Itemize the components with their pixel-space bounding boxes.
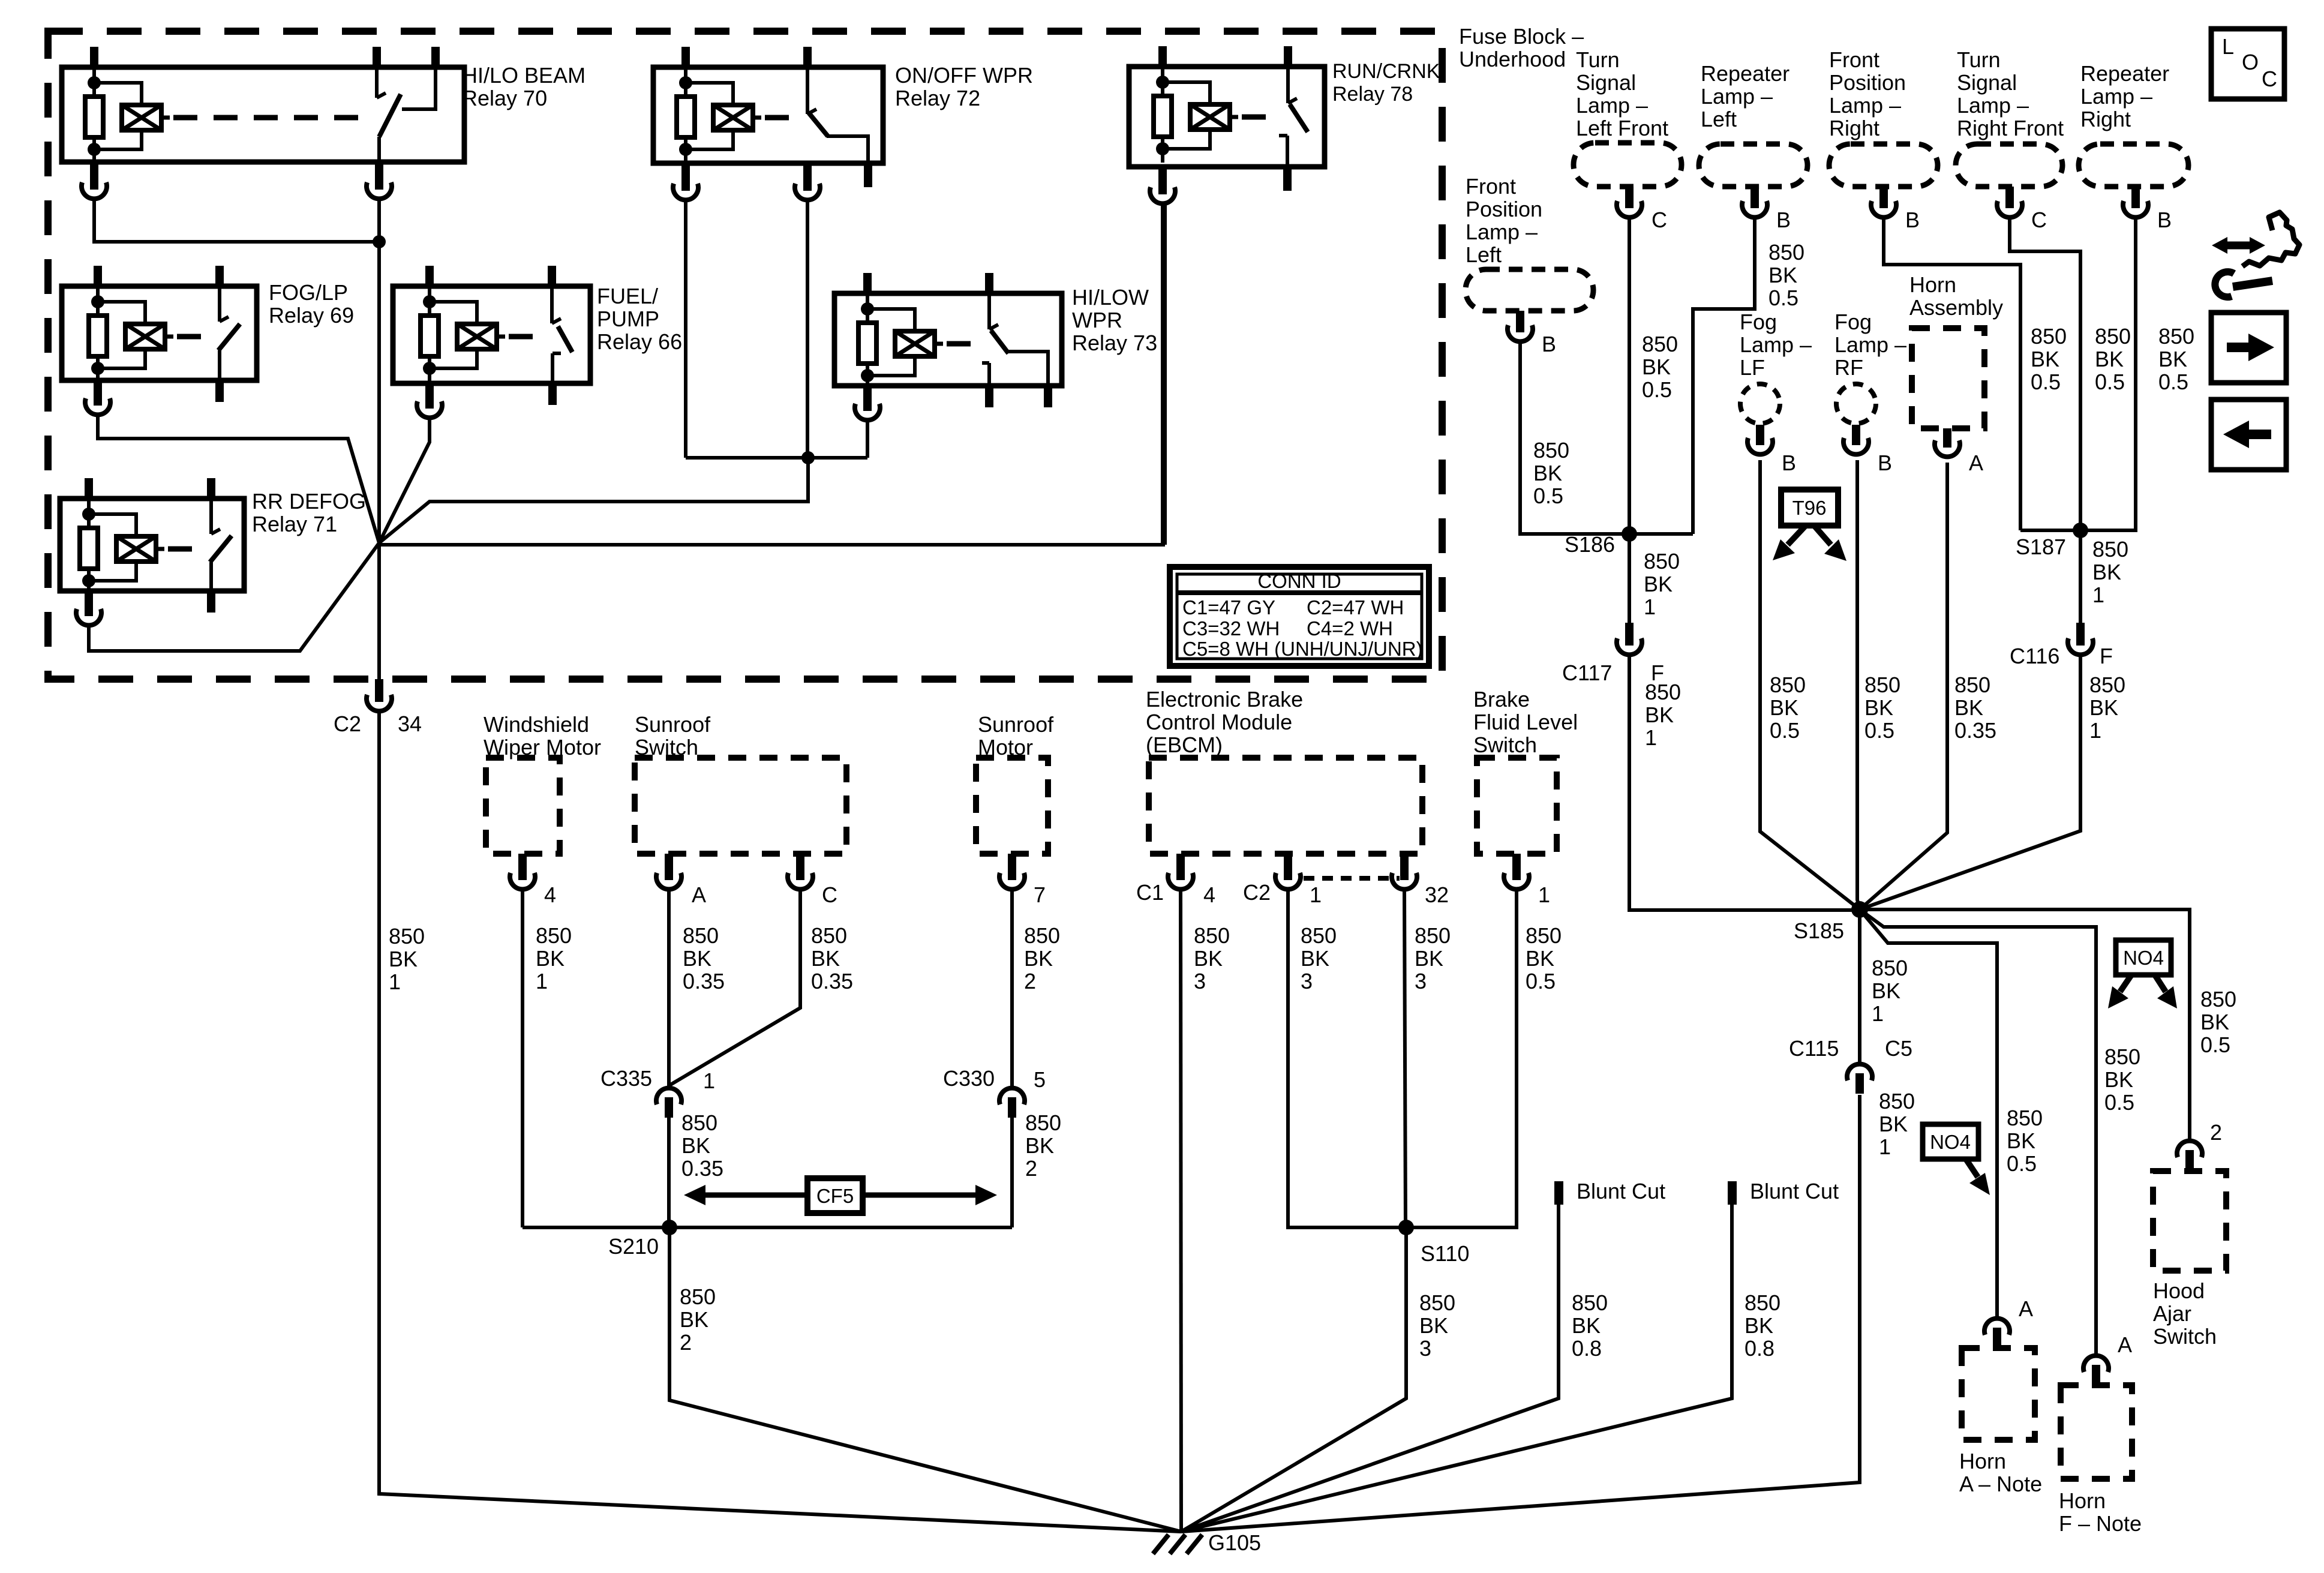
svg-text:Lamp –: Lamp – (1466, 220, 1538, 244)
svg-text:A – Note: A – Note (1959, 1472, 2042, 1496)
svg-text:Sunroof: Sunroof (978, 712, 1054, 737)
svg-text:850: 850 (1872, 956, 1908, 980)
windshield wiper motor (484, 712, 601, 907)
connector C115 C5 (1789, 1036, 1912, 1094)
svg-text:FUEL/: FUEL/ (597, 284, 658, 308)
relay 71 bottom connectors (76, 591, 215, 625)
svg-text:0.35: 0.35 (681, 1156, 723, 1181)
splice S210 (523, 1220, 1012, 1259)
svg-text:B: B (1542, 332, 1556, 356)
svg-text:BK: BK (680, 1307, 708, 1332)
svg-text:Signal: Signal (1576, 70, 1636, 95)
svg-text:Signal: Signal (1957, 70, 2017, 95)
svg-text:F – Note: F – Note (2059, 1511, 2142, 1536)
svg-text:Fog: Fog (1740, 310, 1777, 334)
svg-text:BK: BK (811, 946, 840, 971)
svg-text:HI/LOW: HI/LOW (1072, 285, 1149, 310)
svg-text:A: A (1969, 451, 1983, 475)
svg-text:BK: BK (1526, 946, 1554, 971)
wire relay72 right pin down to dot (806, 201, 809, 458)
svg-text:Switch: Switch (1473, 733, 1537, 757)
svg-text:Horn: Horn (1959, 1449, 2006, 1473)
svg-text:Blunt Cut: Blunt Cut (1577, 1179, 1665, 1203)
wire S185 down to C115 (1858, 909, 1861, 1062)
front position lamp right (1829, 47, 1938, 232)
svg-text:Left: Left (1701, 107, 1737, 131)
wire horn assembly to S185 (1860, 463, 1947, 909)
wire sunroof switch A to C335 (667, 891, 671, 1086)
relay 66 label (597, 284, 682, 354)
svg-text:850: 850 (680, 1284, 716, 1309)
svg-text:850: 850 (683, 923, 719, 948)
label 850 BK 0.35 below C335 (681, 1110, 723, 1181)
svg-text:Horn: Horn (1909, 272, 1956, 297)
svg-text:5: 5 (1034, 1067, 1046, 1092)
wire relay73 pin to dot (866, 421, 869, 458)
label 850 BK 1 above C115 (1872, 956, 1908, 1026)
svg-text:BK: BK (1194, 946, 1223, 971)
svg-text:4: 4 (1203, 882, 1215, 907)
svg-text:C4=2 WH: C4=2 WH (1307, 617, 1393, 640)
svg-text:ON/OFF WPR: ON/OFF WPR (895, 63, 1033, 88)
label 850 BK 0.35 switch C wire (811, 923, 853, 993)
svg-text:Left Front: Left Front (1576, 116, 1668, 140)
junction dot below relay 70 (373, 235, 386, 248)
relay 66 bottom connectors (417, 383, 557, 418)
svg-text:F: F (2100, 644, 2113, 668)
svg-text:850: 850 (1024, 923, 1060, 948)
svg-text:BK: BK (1415, 946, 1443, 971)
NO4 note box upper with arrows (2108, 940, 2177, 1008)
svg-text:850: 850 (1879, 1089, 1915, 1113)
svg-text:Left: Left (1466, 242, 1502, 267)
svg-text:C116: C116 (2010, 644, 2059, 668)
svg-text:Fuse Block –: Fuse Block – (1459, 24, 1584, 49)
relay 73 label (1072, 285, 1157, 355)
svg-text:Switch: Switch (2153, 1324, 2217, 1349)
svg-text:0.8: 0.8 (1572, 1336, 1602, 1361)
svg-text:850: 850 (2095, 324, 2131, 349)
svg-text:1: 1 (536, 969, 548, 993)
svg-text:Relay 70: Relay 70 (462, 86, 547, 110)
svg-text:NO4: NO4 (2123, 947, 2164, 969)
svg-text:Lamp –: Lamp – (1576, 93, 1648, 118)
svg-text:0.5: 0.5 (1770, 718, 1800, 743)
svg-text:0.35: 0.35 (683, 969, 725, 993)
svg-text:C: C (822, 882, 837, 907)
svg-text:Right Front: Right Front (1957, 116, 2064, 140)
svg-text:BK: BK (1642, 355, 1671, 379)
svg-text:3: 3 (1415, 969, 1427, 993)
svg-text:L: L (2222, 34, 2234, 59)
svg-text:0.35: 0.35 (1954, 718, 1996, 743)
svg-text:S185: S185 (1794, 918, 1844, 943)
arrow left legend box (2211, 400, 2286, 470)
wire main vertical x=632 relay70 to C2 connector (377, 200, 381, 679)
svg-text:Turn: Turn (1957, 47, 2001, 72)
svg-text:BK: BK (681, 1133, 710, 1158)
svg-text:0.35: 0.35 (811, 969, 853, 993)
svg-text:Lamp –: Lamp – (1834, 332, 1906, 357)
svg-text:3: 3 (1301, 969, 1313, 993)
svg-text:850: 850 (1301, 923, 1337, 948)
svg-text:2: 2 (1025, 1156, 1037, 1181)
svg-text:C5=8 WH (UNH/UNJ/UNR): C5=8 WH (UNH/UNJ/UNR) (1182, 638, 1423, 660)
relay 72 label (895, 63, 1033, 110)
wire sunroof switch C to C335 (669, 891, 800, 1085)
svg-text:PUMP: PUMP (597, 307, 659, 331)
wire label 850 BK 1 (C2 wire) (389, 924, 425, 994)
svg-text:Assembly: Assembly (1909, 295, 2003, 320)
label 850 BK 0.5 horn A wire (2007, 1106, 2043, 1176)
connector C2 pin 34 (334, 679, 422, 736)
label 850 BK 0.5 FP-left wire (1533, 438, 1569, 508)
horn A-note (1959, 1296, 2042, 1496)
svg-text:T96: T96 (1792, 497, 1827, 519)
label 850 BK 1 below C5 (1879, 1089, 1915, 1159)
svg-text:850: 850 (1644, 549, 1680, 574)
svg-text:S187: S187 (2016, 535, 2066, 559)
label 850 BK 0.35 horn wire (1954, 673, 1996, 743)
wire TS-RF through S187 (2010, 218, 2080, 530)
svg-text:0.5: 0.5 (1768, 286, 1798, 310)
wire relay78 left pin down to junction horizontal (1161, 205, 1164, 545)
relay 69 label (269, 280, 354, 328)
wire relay66 pin to junction (379, 419, 430, 543)
wire S185 to hood ajar switch (1860, 909, 2190, 1139)
horn assembly (1909, 272, 2003, 475)
svg-text:Windshield: Windshield (484, 712, 589, 737)
label 850 BK 3 (pin32 wire) (1415, 923, 1451, 993)
svg-text:850: 850 (1419, 1290, 1455, 1315)
wire S210 to G105 (669, 1227, 1181, 1532)
svg-text:(EBCM): (EBCM) (1146, 733, 1223, 757)
wire EBCM C1-4 to G105 (1181, 891, 1181, 1532)
svg-text:C2: C2 (334, 712, 361, 736)
svg-text:0.5: 0.5 (1864, 718, 1894, 743)
wire junction to RUN/CRNK relay (379, 205, 1165, 545)
svg-text:850: 850 (1744, 1290, 1780, 1315)
svg-text:BK: BK (1864, 695, 1893, 720)
svg-text:LF: LF (1740, 355, 1765, 380)
label 850 BK 0.5 hood ajar wire (2200, 987, 2236, 1057)
fuse block underhood dashed border (48, 31, 1442, 679)
wire C117 to S185 (1629, 656, 1860, 910)
wire EBCM 32 to S110 (1404, 891, 1406, 1227)
wire EBCM C2-1 to S110 (1288, 891, 1406, 1227)
svg-text:850: 850 (1194, 923, 1230, 948)
svg-text:Hood: Hood (2153, 1278, 2205, 1303)
relay 78 RUN/CRNK box (1129, 46, 1325, 167)
svg-text:Electronic Brake: Electronic Brake (1146, 687, 1303, 712)
svg-text:Control Module: Control Module (1146, 710, 1292, 734)
svg-text:BK: BK (1768, 263, 1797, 287)
label 850 BK 1 below C116 (2089, 673, 2125, 743)
svg-text:850: 850 (1526, 923, 1562, 948)
svg-text:Horn: Horn (2059, 1488, 2106, 1513)
svg-text:C117: C117 (1562, 661, 1612, 685)
label 850 BK 0.5 fog LF (1770, 673, 1806, 743)
EBCM electronic brake control module (1136, 687, 1449, 907)
vehicle front icon with arrow and wrench (2212, 212, 2299, 297)
svg-text:B: B (1878, 451, 1892, 475)
fog lamp RF (1834, 310, 1906, 475)
splice S186 (1565, 526, 1693, 557)
svg-text:BK: BK (1879, 1112, 1908, 1136)
svg-text:850: 850 (1025, 1110, 1061, 1135)
blunt cut wire 1 (1181, 1179, 1665, 1532)
relay 72 ON/OFF WPR box (653, 47, 883, 163)
svg-text:BK: BK (1572, 1313, 1601, 1338)
wire S110 to G105 (1181, 1227, 1406, 1532)
svg-text:BK: BK (1024, 946, 1053, 971)
svg-text:Lamp –: Lamp – (1740, 332, 1812, 357)
splice S110 (1398, 1220, 1469, 1266)
svg-text:BK: BK (536, 946, 565, 971)
svg-text:1: 1 (1538, 882, 1550, 907)
svg-text:Repeater: Repeater (2080, 61, 2169, 86)
splice S187 (2016, 523, 2136, 559)
svg-text:NO4: NO4 (1930, 1131, 1971, 1153)
svg-text:C1=47 GY: C1=47 GY (1182, 596, 1275, 619)
wire repeater-left to S186 (1693, 218, 1755, 534)
svg-text:C1: C1 (1136, 880, 1164, 905)
svg-text:Relay 66: Relay 66 (597, 329, 682, 354)
svg-text:0.5: 0.5 (2031, 370, 2061, 394)
svg-text:BK: BK (2031, 347, 2059, 371)
wire relay72 left pin down (684, 201, 687, 458)
label 850 BK 0.5 TS-LF wire (1642, 332, 1678, 402)
wire junction to ON/OFF & HI/LOW relays (379, 458, 867, 543)
relay 71 RR DEFOG box (60, 478, 244, 595)
svg-text:Relay 73: Relay 73 (1072, 331, 1157, 355)
label 850 BK 2 motor wire (1024, 923, 1060, 993)
svg-text:32: 32 (1425, 882, 1449, 907)
svg-text:S186: S186 (1565, 532, 1615, 557)
relay 70 HI/LO BEAM box (62, 47, 464, 163)
svg-text:0.5: 0.5 (2158, 370, 2188, 394)
label 850 BK 3 (C1 wire) (1194, 923, 1230, 993)
svg-text:BK: BK (1872, 978, 1900, 1003)
svg-text:B: B (1905, 208, 1920, 232)
svg-text:Right: Right (2080, 107, 2131, 131)
wire fog-RF to S185 (1857, 460, 1860, 909)
label 850 BK 0.5 repeater-left (1768, 240, 1804, 310)
svg-text:BK: BK (2200, 1010, 2229, 1034)
svg-text:850: 850 (2089, 673, 2125, 697)
svg-text:Position: Position (1829, 70, 1906, 95)
svg-text:B: B (2157, 208, 2172, 232)
CF5 takeout with double arrow (684, 1178, 997, 1213)
horn F-note (2059, 1332, 2142, 1536)
svg-text:4: 4 (544, 882, 556, 907)
svg-text:B: B (1776, 208, 1791, 232)
svg-text:850: 850 (1533, 438, 1569, 463)
svg-text:1: 1 (2092, 583, 2104, 607)
label 850 BK 0.35 switch A wire (683, 923, 725, 993)
wire S185 to horn F-note (1860, 909, 2096, 1353)
svg-text:850: 850 (2158, 324, 2194, 349)
svg-text:A: A (2118, 1332, 2132, 1357)
wire C335 to S210 (667, 1118, 671, 1227)
fog lamp LF (1740, 310, 1812, 475)
svg-text:0.5: 0.5 (2007, 1151, 2037, 1176)
labels 850 BK 0.5 x3 right lamps (2031, 324, 2194, 394)
wire TS-LF to S186/C117 (1628, 218, 1631, 623)
svg-text:C3=32 WH: C3=32 WH (1182, 617, 1280, 640)
svg-text:Fluid Level: Fluid Level (1473, 710, 1578, 734)
svg-text:CF5: CF5 (816, 1185, 854, 1207)
splice S185 (1794, 901, 1868, 943)
svg-text:1: 1 (1645, 725, 1657, 750)
front position lamp left (1466, 174, 1593, 356)
relay 78 bottom connectors (1150, 167, 1292, 203)
svg-text:850: 850 (2092, 537, 2128, 562)
label 850 BK 3 (C2-1 wire) (1301, 923, 1337, 993)
svg-text:0.5: 0.5 (2104, 1090, 2134, 1115)
svg-text:850: 850 (1645, 680, 1681, 704)
svg-text:Relay 72: Relay 72 (895, 86, 980, 110)
svg-text:RUN/CRNK: RUN/CRNK (1332, 60, 1440, 83)
svg-text:Front: Front (1829, 47, 1879, 72)
svg-text:1: 1 (1310, 882, 1322, 907)
relay 72 bottom connectors (673, 163, 872, 200)
svg-text:BK: BK (2158, 347, 2187, 371)
sunroof motor (976, 712, 1054, 907)
svg-text:Relay 71: Relay 71 (252, 512, 337, 536)
svg-text:0.5: 0.5 (1533, 484, 1563, 508)
turn signal lamp left front (1574, 47, 1682, 232)
svg-text:850: 850 (1572, 1290, 1608, 1315)
svg-text:B: B (1782, 451, 1796, 475)
svg-text:2: 2 (1024, 969, 1036, 993)
relay 70 bottom connectors (82, 162, 392, 199)
svg-text:850: 850 (389, 924, 425, 948)
LOC legend box (2211, 29, 2284, 99)
label fuse block underhood (1459, 24, 1584, 71)
relay 78 label (1332, 60, 1440, 106)
svg-text:BK: BK (1744, 1313, 1773, 1338)
wire FP-left to S186 (1520, 343, 1629, 534)
svg-text:7: 7 (1034, 882, 1046, 907)
svg-text:0.5: 0.5 (1642, 377, 1672, 402)
svg-text:C2=47 WH: C2=47 WH (1307, 596, 1404, 619)
svg-text:BK: BK (389, 947, 418, 971)
svg-text:BK: BK (1644, 572, 1673, 596)
svg-text:Lamp –: Lamp – (1701, 84, 1773, 109)
relay 73 HI/LOW WPR box (834, 273, 1062, 389)
wire FP-right to S187 (1884, 218, 2020, 530)
wire S185 to horn A-note (1860, 909, 1997, 1316)
svg-text:2: 2 (2210, 1120, 2222, 1145)
repeater lamp left (1699, 61, 1807, 232)
wire sunroof motor to C330 (1010, 891, 1014, 1086)
svg-text:2: 2 (680, 1330, 692, 1355)
wire C2-34 to G105 (379, 712, 1181, 1532)
wire fog-LF to S185 (1760, 460, 1860, 909)
svg-text:WPR: WPR (1072, 308, 1122, 332)
svg-text:BK: BK (1645, 703, 1674, 727)
svg-text:BK: BK (1770, 695, 1798, 720)
svg-text:850: 850 (1954, 673, 1990, 697)
svg-text:C: C (2262, 67, 2277, 91)
svg-text:Fog: Fog (1834, 310, 1872, 334)
junction dot ON/OFF-HI/LOW wires (801, 451, 815, 464)
svg-text:Lamp –: Lamp – (2080, 84, 2152, 109)
wire repeater-right to S187 (2082, 218, 2136, 530)
wire C330 to S210 (1010, 1118, 1014, 1227)
svg-text:G105: G105 (1208, 1530, 1261, 1555)
svg-text:1: 1 (2089, 718, 2101, 743)
wire relay69 pin to junction (98, 416, 379, 543)
connector C117 F (1562, 623, 1664, 685)
svg-text:34: 34 (398, 712, 422, 736)
svg-text:Front: Front (1466, 174, 1516, 199)
wire relay70 left pin to junction node (94, 200, 379, 242)
relay 66 FUEL/PUMP box (393, 266, 590, 383)
svg-text:BK: BK (2089, 695, 2118, 720)
svg-text:C330: C330 (943, 1066, 995, 1091)
label 850 BK 2 below S210 (680, 1284, 716, 1355)
svg-text:850: 850 (681, 1110, 717, 1135)
svg-text:RR DEFOG: RR DEFOG (252, 489, 366, 514)
svg-text:Lamp –: Lamp – (1829, 93, 1901, 118)
label 850 BK 1 below S186 (1644, 549, 1680, 619)
svg-text:BK: BK (683, 946, 711, 971)
svg-text:BK: BK (2092, 560, 2121, 584)
svg-text:BK: BK (1533, 461, 1562, 485)
svg-text:850: 850 (2200, 987, 2236, 1011)
svg-text:1: 1 (703, 1068, 715, 1093)
svg-text:Position: Position (1466, 197, 1542, 221)
svg-text:C335: C335 (600, 1066, 652, 1091)
sunroof switch (635, 712, 846, 907)
svg-text:850: 850 (811, 923, 847, 948)
svg-text:850: 850 (1864, 673, 1900, 697)
svg-text:0.5: 0.5 (2095, 370, 2125, 394)
T96 takeout box and arrows (1773, 490, 1846, 561)
svg-text:850: 850 (1415, 923, 1451, 948)
hood ajar switch (2153, 1120, 2226, 1349)
svg-text:0.5: 0.5 (1526, 969, 1556, 993)
svg-text:BK: BK (1025, 1133, 1054, 1158)
svg-text:O: O (2242, 50, 2259, 74)
svg-text:S110: S110 (1421, 1241, 1469, 1266)
label 850 BK 0.5 brake fluid wire (1526, 923, 1562, 993)
svg-text:Brake: Brake (1473, 687, 1530, 712)
svg-text:C: C (1652, 208, 1667, 232)
svg-text:850: 850 (2031, 324, 2067, 349)
blunt cut wire 2 (1181, 1179, 1839, 1532)
repeater lamp right (2079, 61, 2188, 232)
svg-text:Sunroof: Sunroof (635, 712, 711, 737)
connector C330 pin 5 (943, 1066, 1046, 1118)
wire C115 to G105 (1181, 1095, 1860, 1532)
svg-text:A: A (2019, 1296, 2033, 1321)
svg-text:Relay 78: Relay 78 (1332, 83, 1413, 106)
svg-text:HI/LO BEAM: HI/LO BEAM (462, 63, 585, 88)
svg-text:850: 850 (1770, 673, 1806, 697)
relay 69 bottom connectors (85, 380, 224, 415)
svg-text:850: 850 (2007, 1106, 2043, 1130)
NO4 note box lower with arrow (1923, 1124, 1990, 1195)
svg-text:BK: BK (2007, 1128, 2035, 1153)
svg-text:Blunt Cut: Blunt Cut (1750, 1179, 1839, 1203)
label 850 BK 1 wiper wire (536, 923, 572, 993)
brake fluid level switch (1473, 687, 1578, 907)
svg-text:850: 850 (1768, 240, 1804, 265)
svg-text:RF: RF (1834, 355, 1863, 380)
